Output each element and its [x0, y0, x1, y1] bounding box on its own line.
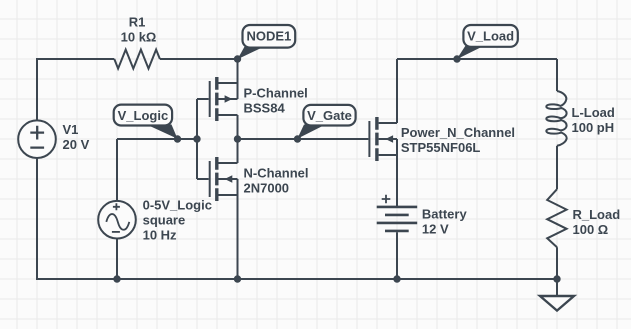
junction — [553, 275, 560, 282]
battery 12V — [377, 195, 418, 279]
junction — [193, 135, 200, 142]
svg-text:12 V: 12 V — [422, 221, 449, 236]
wire — [160, 58, 238, 60]
svg-text:V1: V1 — [63, 122, 79, 137]
junction — [294, 135, 301, 142]
svg-text:L-Load: L-Load — [572, 105, 615, 120]
voltage source V1 — [18, 120, 56, 158]
transistor P-Channel BSS84 — [197, 59, 238, 139]
ground — [556, 279, 558, 296]
svg-text:R1: R1 — [129, 15, 146, 30]
svg-text:NODE1: NODE1 — [247, 29, 292, 44]
svg-text:20 V: 20 V — [63, 137, 90, 152]
svg-text:100 Ω: 100 Ω — [573, 222, 609, 237]
svg-text:10 kΩ: 10 kΩ — [121, 30, 157, 45]
wire — [556, 247, 558, 279]
wire — [556, 146, 558, 189]
svg-text:N-Channel: N-Channel — [244, 166, 309, 181]
wire — [116, 139, 118, 201]
svg-text:P-Channel: P-Channel — [244, 86, 308, 101]
svg-text:0-5V_Logic: 0-5V_Logic — [143, 198, 212, 213]
svg-text:STP55NF06L: STP55NF06L — [401, 140, 481, 155]
junction — [113, 275, 120, 282]
junction — [234, 135, 241, 142]
node V_Gate — [297, 105, 355, 139]
voltage source 0-5V_Logic — [98, 201, 136, 279]
node NODE1 — [238, 25, 296, 59]
svg-text:V_Load: V_Load — [467, 28, 514, 43]
wire — [37, 158, 557, 279]
junction — [234, 55, 241, 62]
junction — [174, 135, 181, 142]
wire — [238, 138, 369, 140]
junction — [453, 55, 460, 62]
wire — [117, 138, 197, 140]
svg-text:V_Logic: V_Logic — [118, 108, 169, 123]
wire — [397, 58, 557, 60]
svg-text:R_Load: R_Load — [573, 207, 621, 222]
transistor N-Channel 2N7000 — [197, 139, 238, 279]
svg-text:V_Gate: V_Gate — [307, 108, 352, 123]
svg-text:BSS84: BSS84 — [244, 101, 286, 116]
resistor R_Load — [547, 189, 566, 247]
junction — [234, 275, 241, 282]
svg-text:10 Hz: 10 Hz — [143, 228, 177, 243]
junction — [393, 275, 400, 282]
transistor Power_N_Channel STP55NF06L — [369, 59, 397, 207]
svg-text:square: square — [143, 213, 186, 228]
wire — [196, 99, 198, 179]
inductor L-Load — [546, 91, 566, 146]
wire — [556, 59, 558, 91]
svg-text:Battery: Battery — [422, 206, 468, 221]
svg-text:2N7000: 2N7000 — [244, 181, 290, 196]
svg-text:100 pH: 100 pH — [572, 120, 615, 135]
svg-text:Power_N_Channel: Power_N_Channel — [401, 125, 515, 140]
wire — [37, 59, 114, 120]
resistor R1 — [114, 50, 160, 69]
node V_Load — [457, 25, 518, 59]
node V_Logic — [114, 105, 178, 139]
